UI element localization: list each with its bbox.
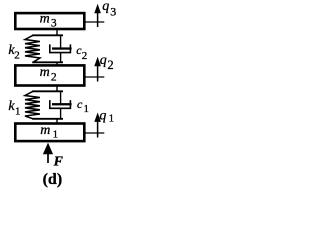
svg-text:3: 3 (51, 18, 57, 30)
svg-text:2: 2 (51, 72, 57, 84)
svg-text:1: 1 (109, 113, 114, 124)
svg-text:q: q (102, 0, 109, 14)
svg-text:m: m (40, 123, 50, 138)
svg-text:m: m (40, 12, 50, 27)
svg-text:2: 2 (82, 50, 88, 62)
svg-text:m: m (40, 65, 50, 80)
svg-text:q: q (100, 53, 107, 68)
svg-text:1: 1 (15, 105, 21, 117)
svg-text:1: 1 (84, 104, 89, 115)
svg-text:3: 3 (110, 5, 116, 19)
svg-text:(d): (d) (43, 171, 63, 188)
svg-text:q: q (99, 108, 106, 123)
svg-text:2: 2 (14, 49, 19, 61)
svg-text:c: c (77, 97, 83, 111)
svg-text:1: 1 (53, 128, 59, 140)
svg-text:2: 2 (107, 58, 113, 72)
svg-text:F: F (53, 154, 64, 169)
